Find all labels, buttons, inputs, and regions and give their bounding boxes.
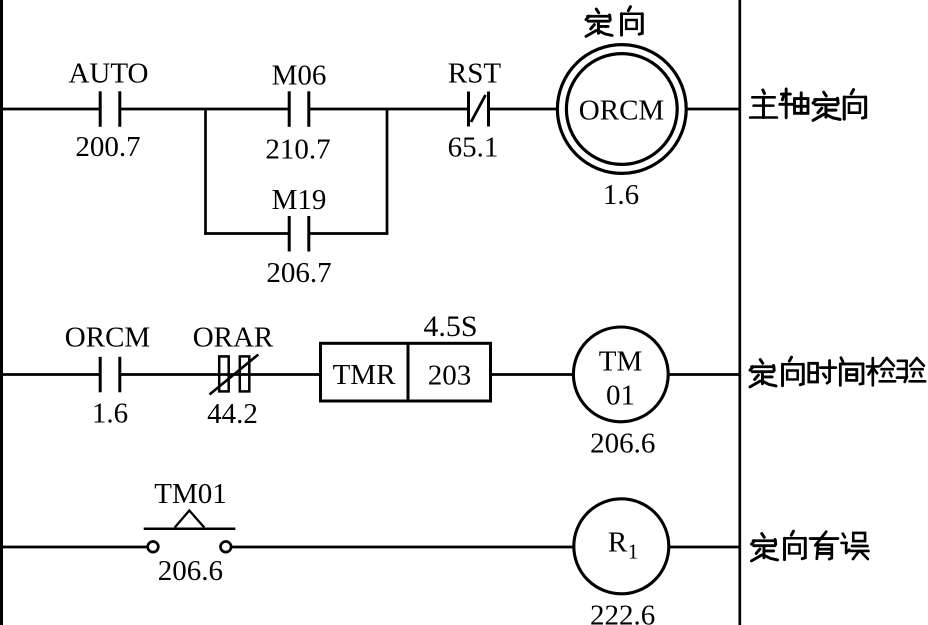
svg-text:M19: M19 <box>272 184 327 216</box>
contact AUTO 200.7 <box>100 91 120 127</box>
parallel branch verticals <box>206 109 388 235</box>
svg-text:44.2: 44.2 <box>207 398 258 430</box>
coil R1 222.6 <box>574 499 669 594</box>
contact M06 210.7 <box>289 91 309 127</box>
svg-text:1.6: 1.6 <box>92 398 128 430</box>
svg-text:RST: RST <box>448 58 501 90</box>
rung 3 comment 定向有误 <box>752 531 869 561</box>
svg-text:TM: TM <box>599 346 643 378</box>
svg-text:65.1: 65.1 <box>448 132 499 164</box>
svg-text:206.6: 206.6 <box>158 555 223 587</box>
contact ORCM 1.6 <box>100 357 120 393</box>
contact M19 206.7 <box>289 216 309 252</box>
svg-text:1.6: 1.6 <box>603 179 639 211</box>
one-shot caret <box>175 511 205 528</box>
coil TM01 206.6 <box>573 327 668 422</box>
svg-text:01: 01 <box>606 380 635 412</box>
svg-text:222.6: 222.6 <box>590 600 655 625</box>
NC contact RST 65.1 <box>469 92 489 127</box>
NC contact ORAR 44.2 (outlined bars) <box>210 355 259 395</box>
rung 1 comment 主轴定向 <box>750 89 866 120</box>
branch bottom wire <box>204 232 388 235</box>
svg-text:AUTO: AUTO <box>68 58 148 90</box>
svg-text:4.5S: 4.5S <box>423 310 477 343</box>
right power rail <box>738 0 741 625</box>
svg-text:206.7: 206.7 <box>266 257 331 289</box>
svg-text:203: 203 <box>428 360 472 392</box>
left power rail <box>0 0 3 625</box>
label 定向 above coil <box>586 7 642 37</box>
svg-text:1: 1 <box>628 540 639 564</box>
one-shot overbar <box>144 527 236 530</box>
timer box TMR 203 <box>321 343 491 401</box>
rung 2 wire <box>0 373 740 376</box>
rung 1 wire <box>0 108 740 111</box>
svg-text:200.7: 200.7 <box>75 131 140 163</box>
svg-text:ORAR: ORAR <box>193 322 274 354</box>
svg-text:ORCM: ORCM <box>65 322 150 354</box>
one-shot contact TM01 206.6 <box>148 542 231 553</box>
svg-text:210.7: 210.7 <box>265 134 330 166</box>
svg-text:R: R <box>608 527 628 559</box>
svg-text:206.6: 206.6 <box>590 428 655 460</box>
svg-text:ORCM: ORCM <box>579 95 664 127</box>
rung 2 comment 定向时间检验 <box>750 357 925 387</box>
rung 3 wire <box>0 546 740 549</box>
svg-text:TMR: TMR <box>333 359 397 391</box>
coil ORCM 1.6 (double circle) <box>557 45 686 174</box>
svg-text:M06: M06 <box>272 60 327 92</box>
svg-text:TM01: TM01 <box>154 478 227 510</box>
